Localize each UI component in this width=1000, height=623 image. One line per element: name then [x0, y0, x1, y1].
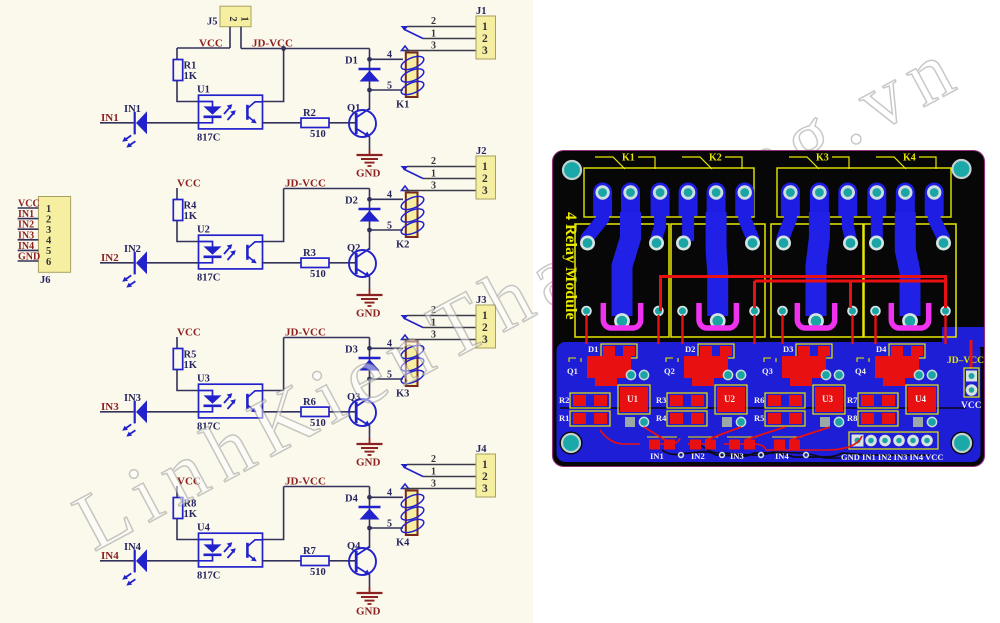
svg-text:R1: R1	[559, 413, 569, 423]
wire IN2 input	[100, 262, 134, 264]
wire JD-VCC to U2 pin4	[263, 189, 284, 242]
PCB relay contact trace B4	[867, 183, 886, 217]
svg-text:Q2: Q2	[664, 366, 675, 376]
PCB relay contact trace A6	[735, 183, 754, 217]
wire D3 to K3 pin5	[370, 378, 404, 380]
wire J6 pin2 stub	[18, 218, 39, 220]
svg-text:1: 1	[482, 161, 488, 173]
svg-text:K1: K1	[622, 153, 635, 164]
svg-text:IN1: IN1	[18, 209, 34, 220]
PCB VCC pad	[961, 384, 982, 411]
PCB dark trace across pour	[560, 407, 966, 409]
wire R4 to U2 pin1	[177, 221, 199, 242]
svg-text:3: 3	[482, 185, 488, 197]
svg-text:1: 1	[46, 204, 51, 215]
resistor R6 510	[301, 397, 329, 429]
wire U3 pin3 to R6	[263, 411, 302, 413]
svg-text:U3: U3	[822, 394, 833, 404]
wire JD-VCC rail	[284, 188, 370, 190]
wire Q4 collector	[369, 528, 371, 548]
wire LED to U4 pin2	[147, 560, 199, 562]
ground GND	[356, 149, 383, 180]
svg-text:5: 5	[387, 81, 392, 92]
wire Q3 emitter to GND	[369, 426, 371, 438]
svg-text:2: 2	[431, 454, 436, 465]
wire JD-VCC rail	[284, 486, 370, 488]
diode D4	[345, 494, 381, 520]
svg-text:J5: J5	[207, 17, 218, 28]
svg-text:K3: K3	[816, 153, 829, 164]
transistor Q1	[347, 103, 376, 137]
svg-text:2: 2	[46, 214, 51, 225]
svg-text:IN2: IN2	[18, 220, 34, 231]
PCB relay contact trace A2	[621, 183, 640, 217]
wire Q1 emitter to GND	[369, 137, 371, 149]
PCB dark winding trace 2	[700, 444, 844, 458]
wire U4 pin3 to R7	[263, 560, 302, 562]
PCB relay contact trace B3	[838, 183, 857, 217]
connector J5	[207, 6, 251, 27]
wire D3 to K3 pin4	[370, 347, 404, 349]
wire J6 pin3 stub	[18, 228, 39, 230]
svg-text:U1: U1	[627, 394, 638, 404]
svg-text:VCC: VCC	[177, 327, 201, 339]
node D1 bottom junction	[367, 88, 372, 93]
svg-text:R4: R4	[184, 201, 198, 212]
PCB cluster D2/Q2/U2	[656, 344, 747, 427]
node D3 top junction	[367, 346, 372, 351]
PCB relay body K2	[671, 212, 765, 344]
svg-text:VCC: VCC	[961, 401, 982, 411]
wire D4 to K4 pin5	[370, 527, 404, 529]
svg-text:2: 2	[482, 33, 488, 45]
relay K3 switch armature	[401, 315, 424, 340]
wire J6 pin6 stub	[18, 260, 39, 262]
svg-text:3: 3	[482, 45, 488, 57]
svg-text:510: 510	[310, 269, 326, 280]
relay coil K3	[396, 342, 426, 400]
PCB relay contact trace A1	[593, 183, 612, 217]
wire J6 pin1 stub	[18, 207, 39, 209]
transistor Q2	[347, 243, 376, 277]
wire U2 pin3 to R3	[263, 262, 302, 264]
wire K1 pin1 to J1	[423, 38, 476, 40]
wire VCC to R8	[176, 486, 178, 498]
wire JD-VCC down to D4	[369, 487, 371, 529]
LED IN3 (input indicator diode)	[122, 393, 147, 437]
svg-text:R3: R3	[656, 395, 666, 405]
wire JD-VCC down to D3	[369, 338, 371, 380]
PCB cluster D1/Q1/U1	[559, 344, 650, 427]
wire JD-VCC to U4 pin4	[263, 487, 284, 540]
svg-text:GND IN1 IN2 IN3 IN4 VCC: GND IN1 IN2 IN3 IN4 VCC	[841, 452, 944, 462]
wire K4 pin2 to J4	[407, 464, 476, 466]
PCB silkscreen label K2	[682, 153, 742, 170]
wire JD-VCC rail	[284, 337, 370, 339]
wire JD-VCC rail (J5 pin1 to D1/K1)	[241, 48, 370, 50]
svg-text:3: 3	[431, 181, 436, 192]
PCB input pads IN3	[727, 427, 785, 461]
node JD-VCC junction	[281, 46, 286, 51]
PCB header GND IN1 IN2 IN3 IN4 VCC	[841, 432, 944, 462]
PCB relay contact trace B1	[781, 183, 800, 217]
svg-text:U2: U2	[197, 225, 210, 236]
PCB JD-VCC pad	[947, 340, 984, 397]
wire D4 to K4 pin4	[370, 496, 404, 498]
svg-text:4: 4	[387, 50, 392, 61]
ground GND	[356, 289, 383, 320]
svg-text:D1: D1	[345, 56, 358, 67]
svg-text:2: 2	[227, 16, 238, 21]
svg-text:4: 4	[387, 488, 392, 499]
svg-text:1K: 1K	[184, 360, 198, 371]
svg-text:R7: R7	[847, 395, 858, 405]
resistor R5 1K	[173, 349, 197, 372]
wire D2 to K2 pin4	[370, 198, 404, 200]
op-amp U3 optocoupler 817C	[197, 374, 263, 433]
svg-text:VCC: VCC	[177, 178, 201, 190]
svg-text:D2: D2	[345, 196, 358, 207]
PCB relay contact trace A5	[707, 183, 726, 217]
svg-text:R5: R5	[184, 350, 197, 361]
relay coil K1	[396, 53, 426, 111]
node D4 bottom junction	[367, 526, 372, 531]
svg-text:JD-VCC: JD-VCC	[285, 327, 326, 339]
wire R5 to U3 pin1	[177, 370, 199, 391]
svg-text:JD–VCC: JD–VCC	[947, 356, 984, 366]
node D3 bottom junction	[367, 377, 372, 382]
PCB cluster D4/Q4/U4	[847, 344, 938, 427]
svg-text:Q3: Q3	[762, 366, 773, 376]
svg-text:4 Relay Module: 4 Relay Module	[562, 212, 579, 320]
wire IN4 input	[100, 560, 134, 562]
wire IN3 input	[100, 411, 134, 413]
svg-text:D4: D4	[345, 494, 359, 505]
svg-text:J1: J1	[476, 6, 487, 17]
PCB mounting hole 4	[953, 434, 971, 452]
PCB relay contact outline A	[584, 168, 754, 217]
svg-text:D4: D4	[876, 344, 887, 354]
svg-text:1: 1	[239, 16, 250, 21]
svg-text:IN3: IN3	[730, 451, 744, 461]
svg-text:1: 1	[431, 29, 436, 40]
wire K2 pin3 to J2	[403, 190, 476, 192]
svg-text:JD-VCC: JD-VCC	[285, 476, 326, 488]
svg-text:U3: U3	[197, 374, 210, 385]
wire R3 to Q2 base	[329, 262, 356, 264]
svg-text:VCC: VCC	[199, 38, 223, 50]
svg-text:IN3: IN3	[124, 393, 141, 404]
svg-text:2: 2	[431, 16, 436, 27]
resistor R7 510	[301, 546, 329, 578]
svg-text:R2: R2	[559, 395, 569, 405]
PCB relay contact trace B2	[810, 183, 829, 217]
svg-text:Q1: Q1	[567, 366, 578, 376]
svg-text:J6: J6	[40, 275, 51, 286]
svg-text:1K: 1K	[184, 71, 198, 82]
connector J1	[476, 6, 496, 59]
svg-text:3: 3	[482, 483, 488, 495]
LED IN2 (input indicator diode)	[122, 244, 147, 288]
relay coil K2	[396, 193, 426, 251]
relay K4 switch armature	[401, 464, 424, 489]
wire R7 to Q4 base	[329, 560, 356, 562]
svg-text:510: 510	[310, 567, 326, 578]
LED IN4 (input indicator diode)	[122, 542, 147, 586]
svg-text:R6: R6	[754, 395, 764, 405]
wire J5 pin2 stub	[229, 27, 231, 48]
svg-text:K4: K4	[903, 153, 916, 164]
svg-text:817C: 817C	[197, 571, 220, 582]
wire K2 pin2 to J2	[407, 166, 476, 168]
svg-text:J4: J4	[476, 444, 487, 455]
PCB silkscreen label K1	[595, 153, 655, 170]
wire VCC to R1	[176, 48, 178, 60]
svg-text:GND: GND	[356, 606, 381, 618]
wire LED to U3 pin2	[147, 411, 199, 413]
op-amp U2 optocoupler 817C	[197, 225, 263, 284]
connector J3	[476, 295, 496, 348]
wire K1 pin3 to J1	[403, 50, 476, 52]
diode D2	[345, 196, 381, 222]
transistor Q3	[347, 392, 376, 426]
PCB mounting hole 3	[562, 434, 580, 452]
svg-text:510: 510	[310, 129, 326, 140]
svg-text:5: 5	[387, 221, 392, 232]
svg-text:3: 3	[431, 41, 436, 52]
wire JD-VCC down to D1	[369, 49, 371, 91]
PCB input pads IN4	[772, 427, 830, 461]
PCB relay contact trace B6	[925, 183, 944, 217]
svg-text:U4: U4	[197, 523, 211, 534]
connector J2	[476, 146, 496, 199]
svg-text:GND: GND	[356, 457, 381, 469]
svg-text:GND: GND	[356, 168, 381, 180]
svg-text:1: 1	[431, 169, 436, 180]
diode D3	[345, 345, 381, 371]
svg-text:5: 5	[46, 246, 51, 257]
node D2 bottom junction	[367, 228, 372, 233]
svg-text:U2: U2	[724, 394, 735, 404]
wire K4 pin1 to J4	[423, 476, 476, 478]
wire U1 pin3 to R2	[263, 122, 302, 124]
wire JD-VCC down to D2	[369, 189, 371, 231]
wire LED to U1 pin2	[147, 122, 199, 124]
svg-text:K2: K2	[396, 240, 409, 251]
wire JD-VCC to U3 pin4	[263, 338, 284, 391]
resistor R1 1K	[173, 60, 197, 83]
LED IN1 (input indicator diode)	[122, 104, 147, 148]
PCB thin red traces bottom	[600, 430, 862, 450]
PCB input pads IN2	[688, 427, 741, 461]
resistor R3 510	[301, 248, 329, 280]
transistor Q4	[347, 541, 376, 575]
wire J6 pin4 stub	[18, 239, 39, 241]
svg-text:GND: GND	[18, 252, 40, 263]
svg-text:1: 1	[431, 467, 436, 478]
wire K3 pin2 to J3	[407, 315, 476, 317]
PCB silkscreen label K3	[789, 153, 849, 170]
resistor R2 510	[301, 108, 329, 140]
resistor R8 1K	[173, 498, 197, 521]
node D4 top junction	[367, 495, 372, 500]
wire D1 to K1 pin4	[370, 58, 404, 60]
wire R8 to U4 pin1	[177, 519, 199, 540]
relay coil K4	[396, 491, 426, 549]
svg-text:IN3: IN3	[18, 230, 34, 241]
svg-text:J2: J2	[476, 146, 487, 157]
PCB relay contact trace B5	[896, 183, 915, 217]
wire Q1 collector	[369, 90, 371, 110]
wire VCC rail (J5 pin2 to R1)	[177, 47, 230, 49]
svg-text:R5: R5	[754, 413, 764, 423]
svg-text:2: 2	[431, 156, 436, 167]
svg-text:D3: D3	[783, 344, 793, 354]
wire Q2 collector	[369, 230, 371, 250]
svg-text:K2: K2	[709, 153, 722, 164]
connector J4	[476, 444, 496, 497]
PCB input pads IN1	[644, 427, 683, 461]
svg-text:3: 3	[431, 479, 436, 490]
svg-text:5: 5	[387, 519, 392, 530]
wire K2 pin1 to J2	[423, 178, 476, 180]
wire VCC to R4	[176, 188, 178, 200]
svg-text:1: 1	[482, 459, 488, 471]
svg-text:JD-VCC: JD-VCC	[285, 178, 326, 190]
wire R1 to U1 pin1	[177, 81, 199, 102]
ground GND	[356, 438, 383, 469]
svg-text:6: 6	[46, 257, 51, 268]
wire R2 to Q1 base	[329, 122, 356, 124]
svg-text:IN2: IN2	[691, 451, 705, 461]
svg-text:1K: 1K	[184, 211, 198, 222]
relay K1 switch armature	[401, 26, 424, 51]
wire IN1 input	[100, 122, 134, 124]
svg-text:D1: D1	[588, 344, 598, 354]
connector J6	[38, 197, 70, 287]
svg-text:817C: 817C	[197, 273, 220, 284]
svg-text:R8: R8	[847, 413, 857, 423]
svg-text:IN1: IN1	[650, 451, 664, 461]
ground GND	[356, 587, 383, 618]
wire K3 pin3 to J3	[403, 339, 476, 341]
resistor R4 1K	[173, 200, 197, 223]
PCB relay body K1	[575, 212, 669, 344]
svg-text:VCC: VCC	[18, 199, 40, 210]
svg-text:U4: U4	[915, 394, 926, 404]
svg-text:4: 4	[387, 190, 392, 201]
svg-text:R4: R4	[656, 413, 667, 423]
PCB red bus traces	[661, 277, 946, 312]
svg-text:4: 4	[46, 236, 52, 247]
PCB photo: board	[553, 151, 985, 467]
svg-text:IN4: IN4	[18, 241, 34, 252]
svg-text:1: 1	[482, 21, 488, 33]
wire D1 to K1 pin5	[370, 89, 404, 91]
node D1 top junction	[367, 57, 372, 62]
svg-text:817C: 817C	[197, 133, 220, 144]
diode D1	[345, 56, 381, 82]
PCB dark winding traces bottom	[662, 450, 930, 457]
wire JD-VCC to U1 pin4	[263, 49, 284, 102]
wire Q3 collector	[369, 379, 371, 399]
wire LED to U2 pin2	[147, 262, 199, 264]
svg-text:IN4: IN4	[775, 451, 789, 461]
wire K1 pin2 to J1	[407, 26, 476, 28]
svg-text:D2: D2	[685, 344, 695, 354]
op-amp U4 optocoupler 817C	[197, 523, 263, 582]
svg-text:K1: K1	[396, 100, 409, 111]
svg-text:Q4: Q4	[855, 366, 867, 376]
wire R6 to Q3 base	[329, 411, 356, 413]
PCB mounting hole 2	[953, 160, 971, 178]
wire J6 pin5 stub	[18, 249, 39, 251]
svg-text:R1: R1	[184, 61, 197, 72]
svg-text:JD-VCC: JD-VCC	[252, 38, 293, 50]
op-amp U1 optocoupler 817C	[197, 85, 263, 144]
relay K2 switch armature	[401, 166, 424, 191]
PCB mounting hole 1	[563, 161, 581, 179]
PCB relay contact outline B	[777, 168, 951, 217]
wire K3 pin1 to J3	[423, 327, 476, 329]
PCB relay contact trace A4	[679, 183, 698, 217]
PCB silkscreen label K4	[876, 153, 936, 170]
node D2 top junction	[367, 197, 372, 202]
wire K4 pin3 to J4	[403, 488, 476, 490]
PCB cluster D3/Q3/U3	[754, 344, 845, 427]
svg-text:IN1: IN1	[124, 104, 141, 115]
svg-text:2: 2	[482, 173, 488, 185]
wire J5 pin1 stub	[240, 27, 242, 49]
wire Q2 emitter to GND	[369, 277, 371, 289]
wire D2 to K2 pin5	[370, 229, 404, 231]
PCB relay body K3	[771, 212, 863, 344]
svg-text:3: 3	[46, 225, 51, 236]
PCB relay body K4	[864, 212, 956, 344]
PCB relay contact trace A3	[651, 183, 670, 217]
svg-text:IN2: IN2	[124, 244, 141, 255]
svg-text:K4: K4	[396, 538, 410, 549]
PCB bottom ground pour	[557, 327, 985, 462]
svg-text:2: 2	[482, 471, 488, 483]
wire VCC to R5	[176, 337, 178, 349]
wire Q4 emitter to GND	[369, 575, 371, 587]
svg-text:U1: U1	[197, 85, 210, 96]
